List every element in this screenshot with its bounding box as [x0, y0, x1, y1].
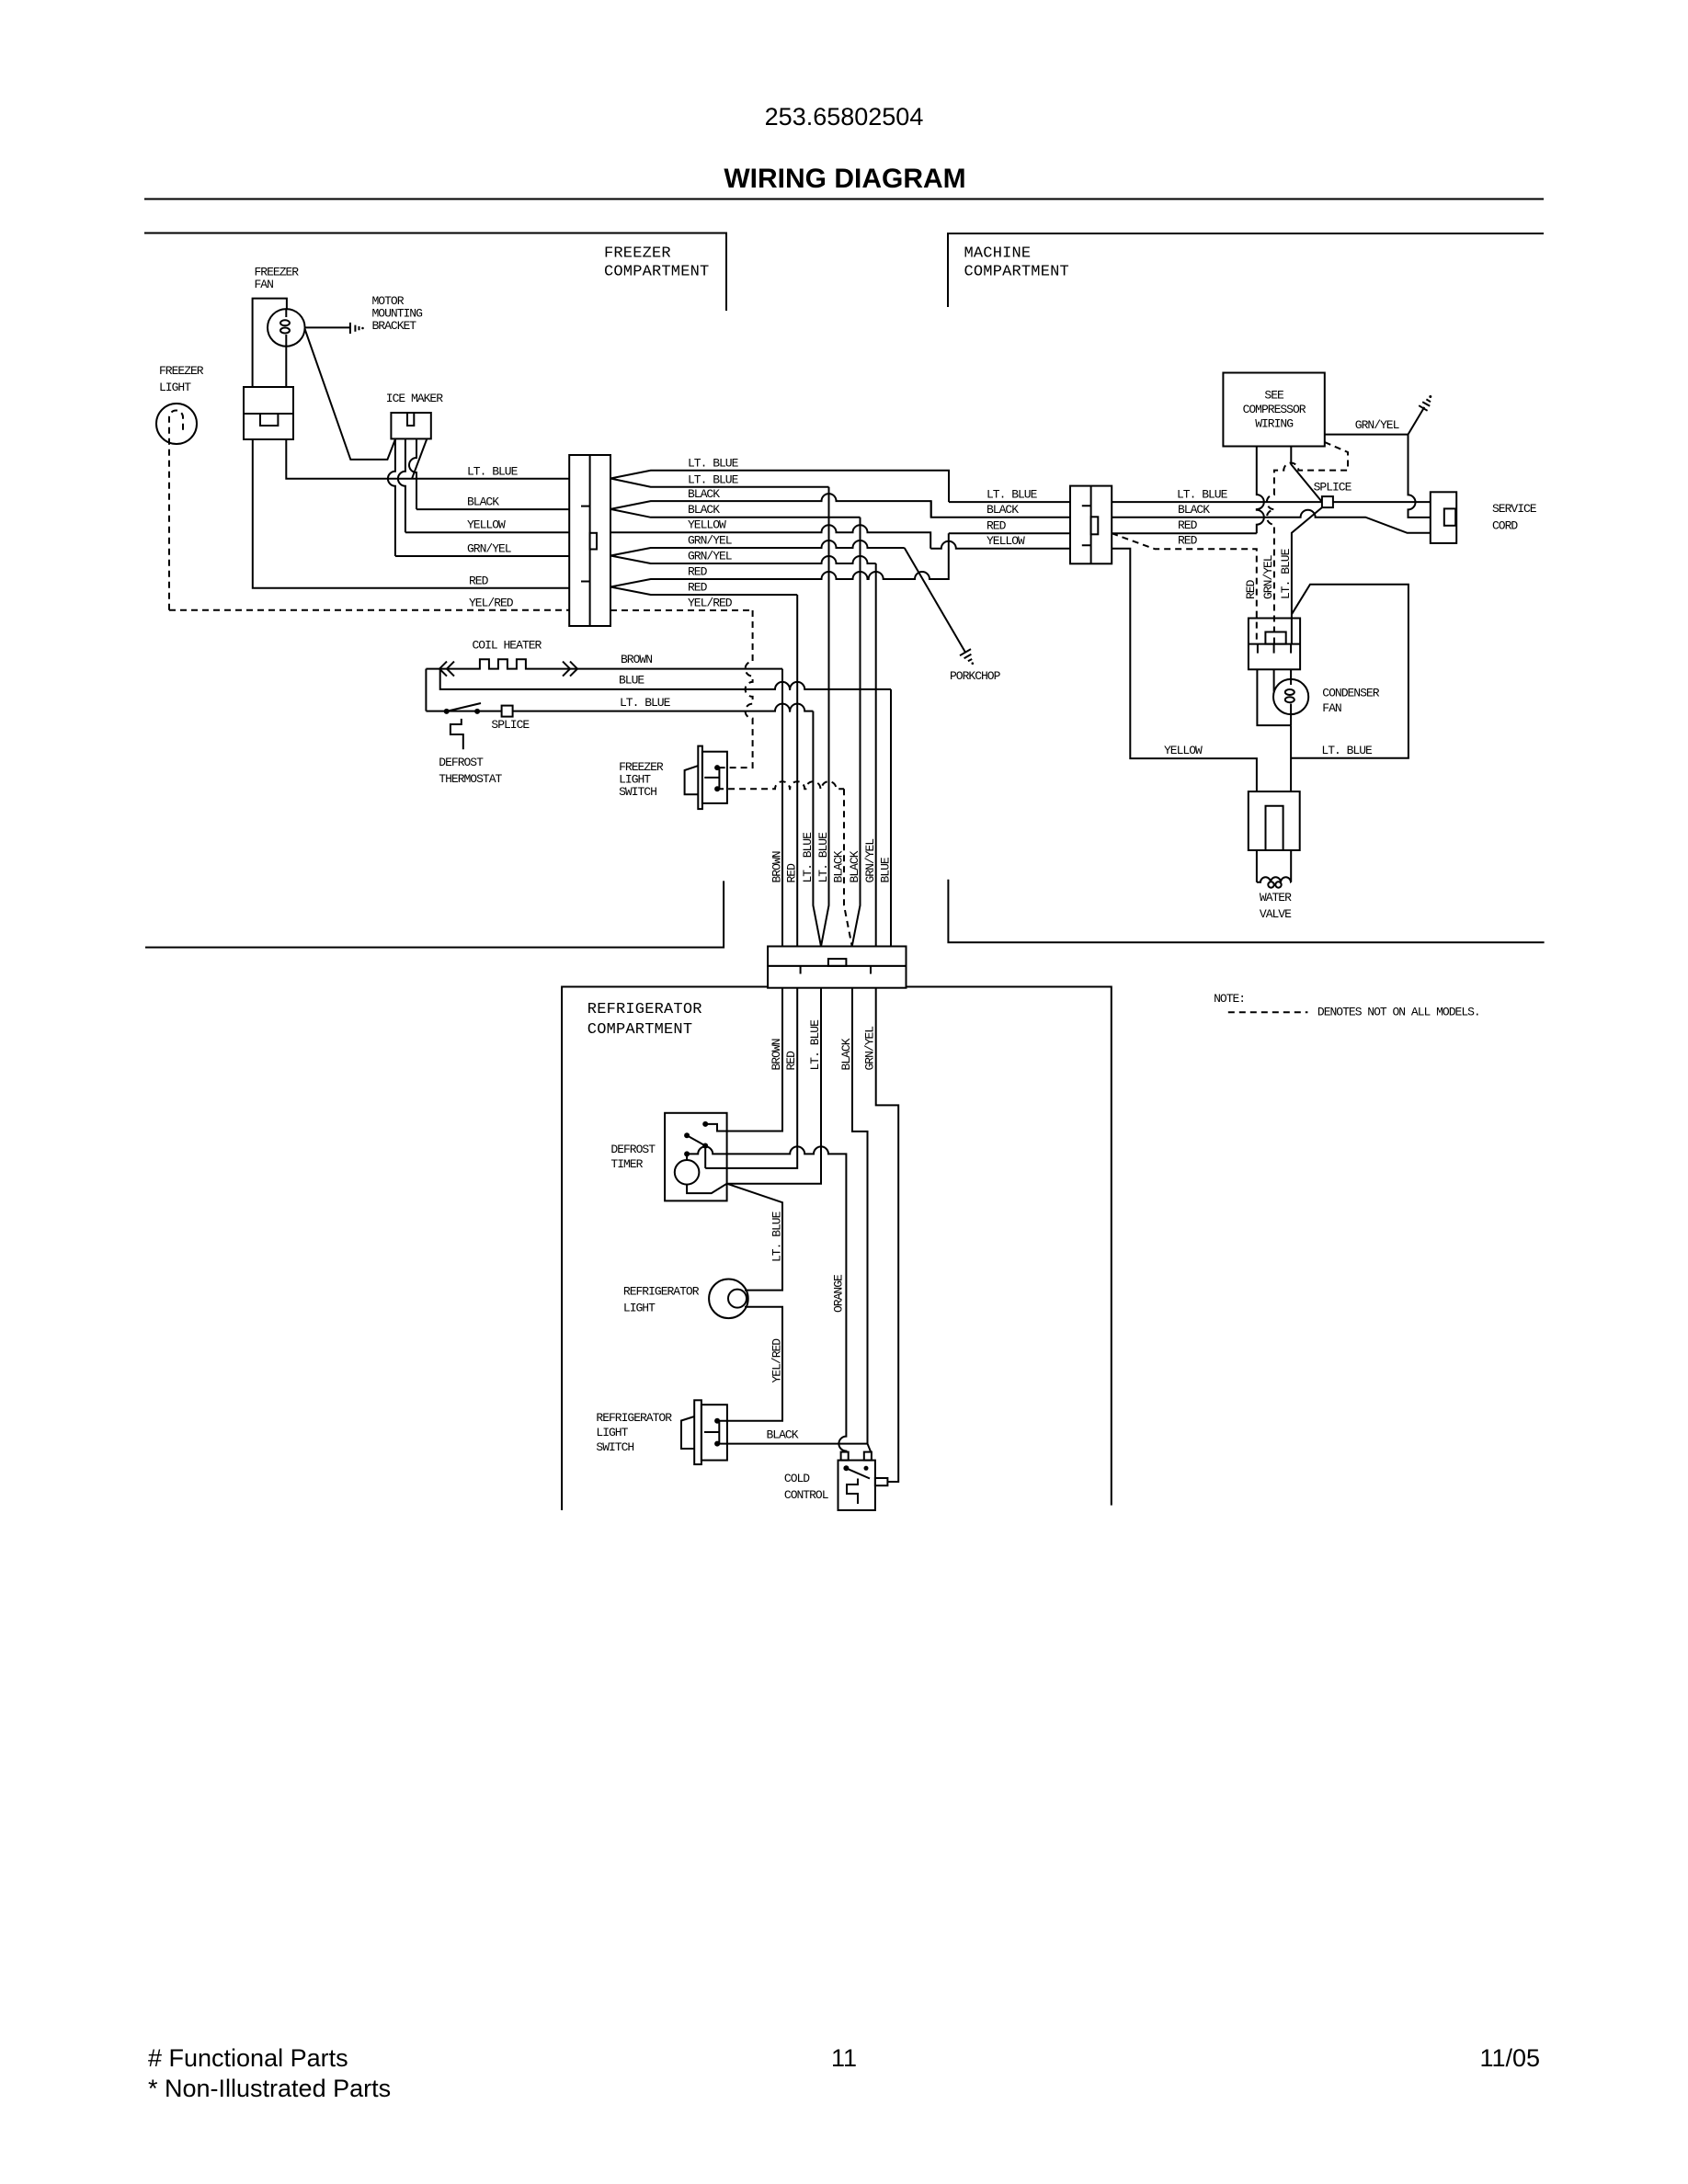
svg-text:GRN/YEL: GRN/YEL: [1355, 418, 1399, 432]
svg-text:COMPRESSOR: COMPRESSOR: [1243, 403, 1306, 416]
svg-text:SPLICE: SPLICE: [1314, 481, 1352, 495]
svg-text:BLACK: BLACK: [839, 1038, 853, 1070]
svg-text:GRN/YEL: GRN/YEL: [863, 1027, 877, 1071]
svg-text:BLACK: BLACK: [767, 1428, 799, 1442]
svg-text:RED: RED: [987, 519, 1007, 533]
svg-text:BLACK: BLACK: [848, 850, 861, 882]
svg-text:253.65802504: 253.65802504: [765, 103, 924, 131]
svg-text:LT. BLUE: LT. BLUE: [467, 465, 519, 479]
svg-text:GRN/YEL: GRN/YEL: [688, 534, 732, 548]
svg-text:SPLICE: SPLICE: [491, 718, 530, 732]
svg-text:REFRIGERATOR: REFRIGERATOR: [623, 1285, 700, 1299]
svg-text:YEL/RED: YEL/RED: [469, 597, 514, 610]
svg-text:CONTROL: CONTROL: [784, 1488, 828, 1502]
svg-text:RED: RED: [1178, 534, 1198, 548]
svg-text:FREEZER: FREEZER: [159, 364, 204, 378]
svg-text:YELLOW: YELLOW: [467, 518, 506, 532]
svg-text:DENOTES NOT ON ALL MODELS.: DENOTES NOT ON ALL MODELS.: [1317, 1006, 1480, 1019]
svg-text:BROWN: BROWN: [770, 1039, 783, 1070]
svg-text:RED: RED: [688, 565, 708, 579]
svg-text:SEE: SEE: [1264, 389, 1284, 403]
svg-text:LT. BLUE: LT. BLUE: [688, 457, 739, 471]
svg-text:SWITCH: SWITCH: [619, 785, 656, 799]
svg-text:WATER: WATER: [1260, 891, 1292, 904]
svg-text:RED: RED: [785, 863, 799, 883]
svg-text:VALVE: VALVE: [1260, 907, 1292, 921]
svg-text:LIGHT: LIGHT: [623, 1302, 656, 1315]
svg-text:LT. BLUE: LT. BLUE: [1279, 548, 1293, 599]
svg-text:LT. BLUE: LT. BLUE: [1321, 744, 1373, 757]
svg-text:PORKCHOP: PORKCHOP: [950, 669, 1001, 683]
svg-text:BLACK: BLACK: [832, 850, 846, 882]
svg-text:COMPARTMENT: COMPARTMENT: [964, 264, 1069, 281]
svg-text:BRACKET: BRACKET: [372, 319, 417, 333]
svg-text:TIMER: TIMER: [610, 1157, 643, 1171]
svg-text:RED: RED: [469, 574, 489, 588]
svg-text:GRN/YEL: GRN/YEL: [863, 839, 877, 883]
svg-text:COMPARTMENT: COMPARTMENT: [587, 1021, 692, 1039]
svg-text:BLACK: BLACK: [688, 503, 720, 517]
svg-text:RED: RED: [784, 1051, 798, 1071]
svg-text:RED: RED: [1178, 518, 1198, 532]
svg-text:CORD: CORD: [1492, 519, 1518, 533]
svg-text:BLUE: BLUE: [879, 857, 893, 882]
svg-text:GRN/YEL: GRN/YEL: [688, 550, 732, 563]
svg-text:LT. BLUE: LT. BLUE: [620, 696, 671, 710]
svg-text:LT. BLUE: LT. BLUE: [688, 473, 739, 487]
svg-text:BROWN: BROWN: [770, 851, 784, 882]
svg-text:YELLOW: YELLOW: [987, 534, 1025, 548]
svg-text:BLUE: BLUE: [619, 674, 644, 688]
svg-text:THERMOSTAT: THERMOSTAT: [439, 772, 502, 786]
svg-text:MACHINE: MACHINE: [964, 245, 1032, 263]
svg-text:YEL/RED: YEL/RED: [688, 597, 733, 610]
svg-text:SWITCH: SWITCH: [596, 1440, 633, 1454]
svg-text:LT. BLUE: LT. BLUE: [987, 488, 1038, 502]
svg-text:WIRING: WIRING: [1255, 417, 1293, 431]
svg-text:YELLOW: YELLOW: [1164, 744, 1203, 757]
svg-text:# Functional Parts: # Functional Parts: [148, 2044, 348, 2072]
svg-text:COLD: COLD: [784, 1472, 810, 1485]
svg-text:ICE MAKER: ICE MAKER: [386, 392, 443, 405]
svg-text:LIGHT: LIGHT: [596, 1426, 628, 1439]
svg-text:COIL HEATER: COIL HEATER: [473, 639, 542, 653]
svg-text:LT. BLUE: LT. BLUE: [801, 832, 815, 883]
svg-text:LT. BLUE: LT. BLUE: [770, 1211, 784, 1262]
svg-text:11: 11: [831, 2044, 857, 2072]
svg-text:YEL/RED: YEL/RED: [770, 1338, 784, 1383]
svg-text:ORANGE: ORANGE: [831, 1274, 845, 1313]
svg-text:FAN: FAN: [255, 278, 274, 291]
svg-text:RED: RED: [688, 581, 708, 595]
svg-text:FAN: FAN: [1322, 701, 1341, 715]
svg-text:GRN/YEL: GRN/YEL: [467, 542, 511, 556]
svg-text:REFRIGERATOR: REFRIGERATOR: [587, 1001, 702, 1018]
svg-text:WIRING DIAGRAM: WIRING DIAGRAM: [724, 164, 965, 194]
svg-text:SERVICE: SERVICE: [1492, 502, 1537, 516]
svg-text:REFRIGERATOR: REFRIGERATOR: [596, 1411, 672, 1425]
svg-text:BROWN: BROWN: [621, 653, 652, 666]
svg-text:NOTE:: NOTE:: [1214, 992, 1245, 1006]
svg-text:LIGHT: LIGHT: [159, 381, 191, 394]
svg-text:FREEZER: FREEZER: [604, 245, 671, 263]
svg-text:LT. BLUE: LT. BLUE: [808, 1019, 822, 1071]
svg-text:COMPARTMENT: COMPARTMENT: [604, 264, 709, 281]
svg-text:GRN/YEL: GRN/YEL: [1261, 555, 1275, 599]
svg-text:BLACK: BLACK: [688, 487, 720, 501]
svg-text:BLACK: BLACK: [1178, 503, 1210, 517]
svg-text:BLACK: BLACK: [467, 495, 499, 509]
svg-text:LT. BLUE: LT. BLUE: [816, 832, 830, 883]
svg-text:DEFROST: DEFROST: [610, 1143, 656, 1156]
svg-text:* Non-Illustrated Parts: * Non-Illustrated Parts: [148, 2075, 391, 2102]
svg-text:11/05: 11/05: [1479, 2044, 1540, 2072]
svg-text:CONDENSER: CONDENSER: [1322, 687, 1379, 700]
svg-text:YELLOW: YELLOW: [688, 518, 726, 532]
svg-text:LT. BLUE: LT. BLUE: [1177, 488, 1228, 502]
svg-text:RED: RED: [1244, 579, 1258, 599]
svg-text:DEFROST: DEFROST: [439, 756, 484, 769]
svg-text:BLACK: BLACK: [987, 503, 1019, 517]
